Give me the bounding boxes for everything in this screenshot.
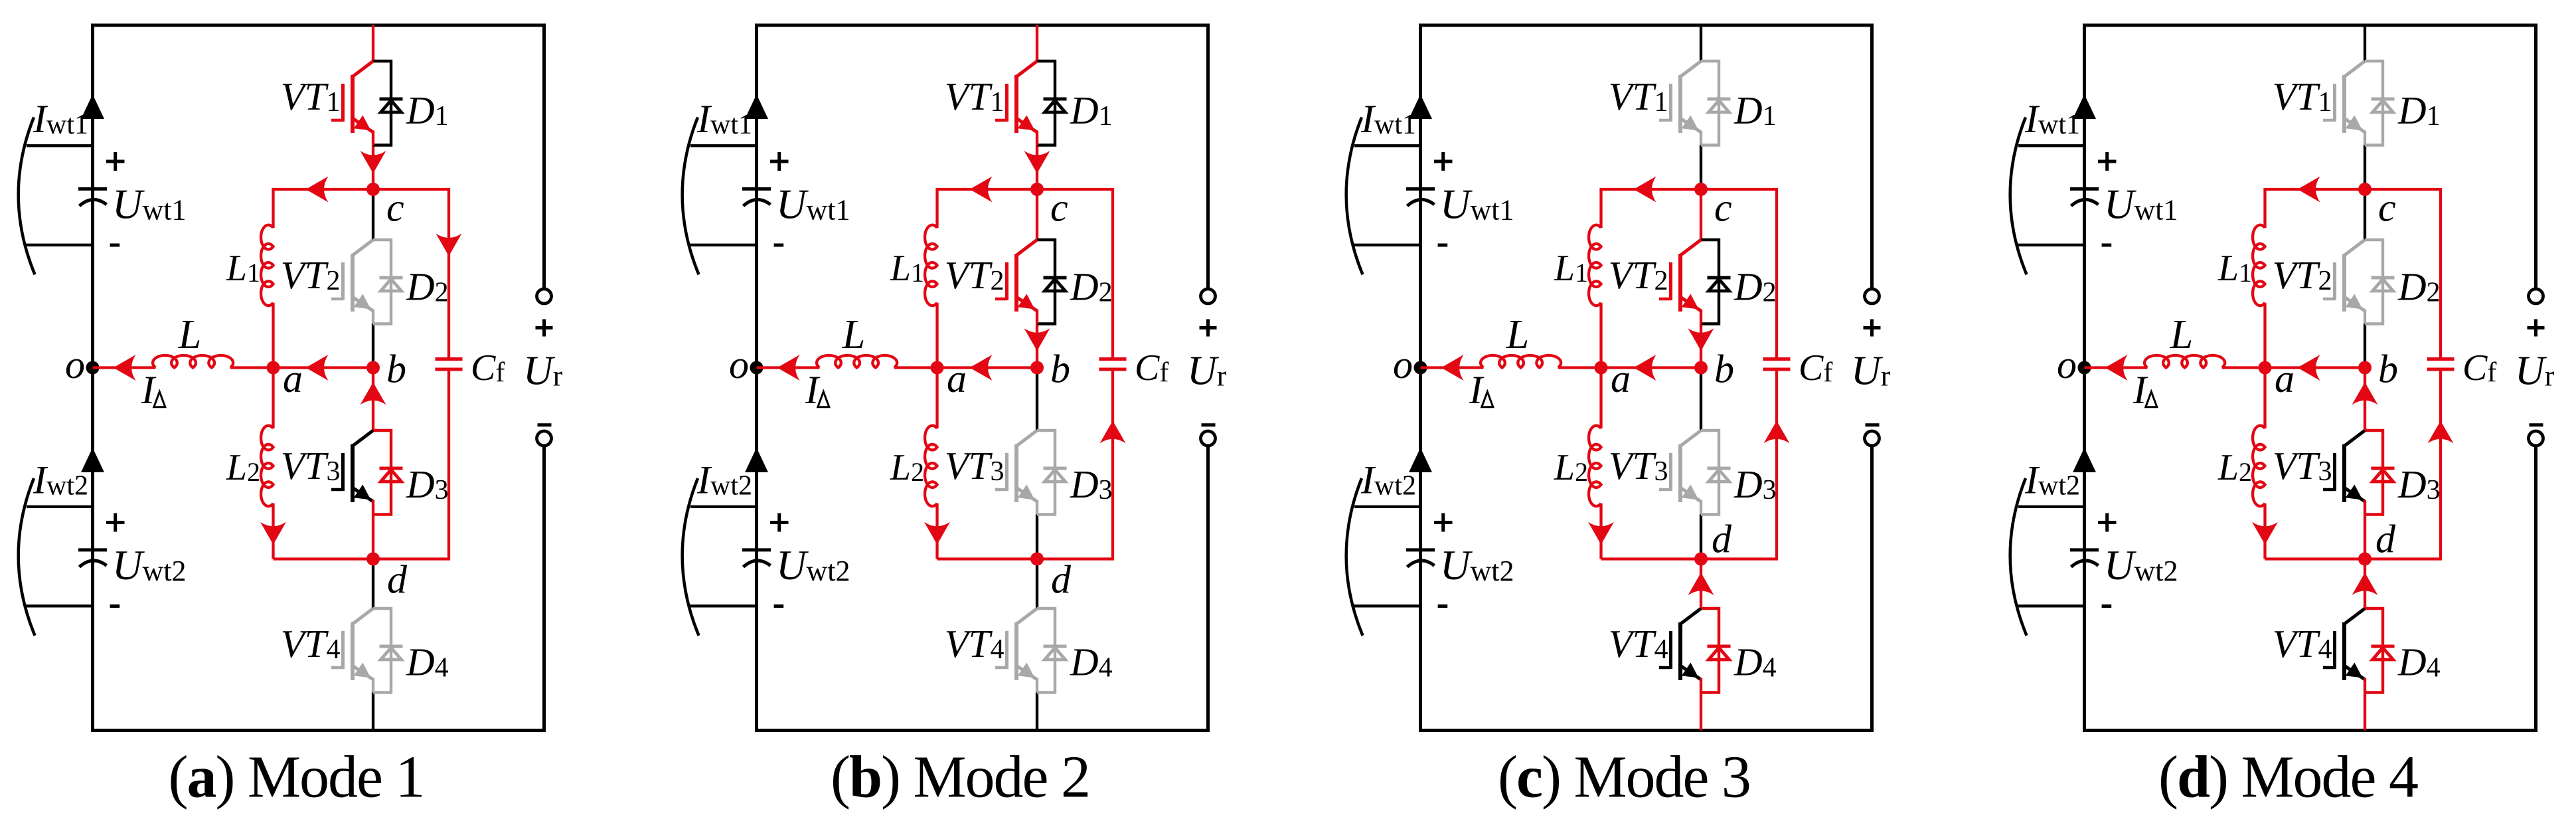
wire: outer loop rails bbox=[757, 25, 1208, 731]
diode D3 bbox=[1037, 430, 1055, 515]
wire: node c to VT2 bbox=[1036, 189, 1038, 240]
wire: Uwt2 top stub bbox=[1354, 505, 1421, 508]
wire: VT2 emitter stub bbox=[372, 310, 374, 324]
wire: Uwt2 bottom stub bbox=[25, 604, 93, 607]
source curve wt2 bbox=[19, 478, 35, 636]
wire: VT3 emitter stub bbox=[1036, 500, 1038, 515]
wire: outer loop rails bbox=[1421, 25, 1872, 731]
wire: Uwt2 bottom stub bbox=[689, 604, 757, 607]
diode D3 bbox=[1701, 430, 1719, 515]
label plus Ur bbox=[2528, 326, 2545, 329]
source curve wt1 bbox=[683, 118, 699, 275]
svg-text:a: a bbox=[1611, 357, 1631, 401]
capacitor Uwt2 bbox=[742, 548, 771, 551]
wire: VT2 emitter to node b bbox=[372, 324, 374, 368]
current arrow b to a bbox=[970, 355, 993, 381]
wire: VT4 emitter to bottom rail bbox=[1700, 693, 1702, 731]
label plus Uwt2 bbox=[1434, 521, 1453, 524]
svg-text:(a) Mode 1: (a) Mode 1 bbox=[169, 745, 424, 810]
wire: VT4 emitter stub bbox=[1700, 678, 1702, 693]
label plus Uwt1 bbox=[1434, 160, 1453, 163]
wire: node d horizontal link bbox=[2265, 371, 2441, 559]
node b bbox=[1694, 361, 1708, 375]
node d bbox=[2358, 553, 2372, 566]
wire: node b to node a bbox=[2265, 366, 2366, 369]
transistor VT1 bbox=[1014, 75, 1018, 133]
wire: node d horizontal link bbox=[274, 371, 449, 559]
svg-text:o: o bbox=[1393, 343, 1413, 387]
diode D4 bbox=[373, 608, 391, 693]
node c bbox=[1030, 183, 1044, 196]
wire: node b to VT3 bbox=[1700, 368, 1702, 431]
wire: node a to L2 bbox=[1599, 368, 1602, 429]
svg-text:c: c bbox=[1050, 186, 1068, 230]
current arrow Iwt2 bbox=[2073, 448, 2096, 472]
wire: node b to VT3 bbox=[1036, 368, 1038, 431]
svg-text:L: L bbox=[178, 312, 201, 357]
wire: L1 to node a bbox=[1599, 303, 1602, 368]
capacitor Uwt1 bbox=[78, 187, 107, 191]
label plus Uwt2 bbox=[106, 521, 125, 524]
svg-text:d: d bbox=[1712, 517, 1732, 561]
terminal + output bbox=[1865, 289, 1880, 304]
diode D3 bbox=[2365, 430, 2383, 515]
terminal + output bbox=[1201, 289, 1216, 304]
label minus Uwt2 bbox=[774, 604, 784, 608]
label minus Uwt1 bbox=[110, 244, 120, 247]
wire: node a to L2 bbox=[2263, 368, 2266, 429]
capacitor Uwt2 bbox=[1406, 548, 1435, 551]
transistor VT3 bbox=[2342, 444, 2346, 502]
wire: L1 to node a bbox=[2263, 303, 2266, 368]
label plus Uwt1 bbox=[2098, 160, 2117, 163]
svg-text:b: b bbox=[1714, 347, 1734, 391]
capacitor Uwt2 bbox=[2070, 548, 2099, 551]
inductor L2 bbox=[2253, 426, 2265, 506]
node d bbox=[1030, 553, 1044, 566]
wire: VT4 emitter stub bbox=[1036, 678, 1038, 693]
capacitor Cf bbox=[1099, 357, 1127, 361]
transistor VT2 bbox=[351, 254, 355, 312]
diode D1 bbox=[2365, 61, 2383, 145]
wire: node c horizontal link bbox=[937, 189, 1113, 357]
node b bbox=[366, 361, 380, 375]
wire: outer loop rails bbox=[93, 25, 544, 731]
wire: VT3 emitter to node d bbox=[1700, 515, 1702, 559]
node c bbox=[366, 183, 380, 196]
wire: top rail to VT1 bbox=[372, 25, 374, 61]
current arrow into node b (down) bbox=[1688, 328, 1714, 351]
inductor L1 bbox=[261, 225, 273, 306]
diode D4 bbox=[2365, 608, 2383, 693]
current arrow on c link bbox=[1634, 177, 1656, 203]
transistor VT3 bbox=[351, 444, 355, 502]
wire: Uwt1 top stub bbox=[690, 144, 757, 147]
terminal - output bbox=[2529, 431, 2543, 446]
wire: Uwt2 top stub bbox=[690, 505, 757, 508]
terminal - output bbox=[1865, 431, 1880, 446]
current arrow Iwt2 bbox=[745, 448, 768, 472]
label plus Uwt1 bbox=[106, 160, 125, 163]
transistor VT4 bbox=[1014, 622, 1018, 680]
label minus Uwt2 bbox=[110, 604, 120, 608]
wire: Uwt1 bottom stub bbox=[25, 244, 93, 246]
terminal + output bbox=[537, 289, 552, 304]
wire: node b to node a bbox=[937, 366, 1038, 369]
diode D1 bbox=[373, 61, 391, 145]
diode D2 bbox=[373, 240, 391, 324]
svg-text:d: d bbox=[2375, 517, 2396, 561]
wire: VT3 emitter to node d bbox=[372, 515, 374, 559]
svg-text:c: c bbox=[2378, 186, 2396, 230]
current arrow Iwt1 bbox=[2073, 94, 2096, 119]
inductor L2 bbox=[1589, 426, 1601, 506]
transistor VT2 bbox=[1014, 254, 1018, 312]
wire: node d horizontal link bbox=[937, 371, 1113, 559]
label minus Ur bbox=[1202, 423, 1216, 426]
wire: node c horizontal link bbox=[2265, 189, 2441, 357]
wire: node d horizontal link bbox=[1601, 371, 1777, 559]
wire: VT1 emitter stub bbox=[372, 131, 374, 145]
current arrow on c link bbox=[2298, 177, 2320, 203]
current arrow Cf branch (up) bbox=[2428, 420, 2454, 443]
diode D4 bbox=[1037, 608, 1055, 693]
node o bbox=[86, 361, 100, 375]
wire: Uwt1 top stub bbox=[27, 144, 93, 147]
node b bbox=[1030, 361, 1044, 375]
current arrow Iwt2 bbox=[81, 448, 104, 472]
transistor VT3 bbox=[1014, 444, 1018, 502]
inductor L1 bbox=[1589, 225, 1601, 306]
transistor VT1 bbox=[1678, 75, 1682, 133]
label plus Ur bbox=[1200, 326, 1217, 329]
wire: VT2 emitter to node b bbox=[1036, 324, 1038, 368]
svg-text:(c) Mode 3: (c) Mode 3 bbox=[1498, 745, 1750, 810]
current arrow into node o bbox=[2105, 355, 2128, 381]
wire: node b to node a bbox=[274, 366, 374, 369]
label minus Uwt2 bbox=[1438, 604, 1448, 608]
terminal + output bbox=[2529, 289, 2543, 304]
svg-text:b: b bbox=[2378, 347, 2398, 391]
current arrow b to a bbox=[2298, 355, 2320, 381]
label minus Uwt2 bbox=[2102, 604, 2112, 608]
transistor VT4 bbox=[2342, 622, 2346, 680]
transistor VT2 bbox=[1678, 254, 1682, 312]
capacitor Uwt1 bbox=[1406, 187, 1435, 191]
terminal - output bbox=[537, 431, 552, 446]
svg-text:c: c bbox=[386, 186, 404, 230]
wire: node c horizontal link bbox=[1601, 189, 1777, 357]
current arrow into node d (up) bbox=[2352, 573, 2378, 595]
wire: node o to coil L bbox=[93, 366, 156, 369]
current arrow on c link bbox=[970, 177, 993, 203]
wire: VT3 emitter to node d bbox=[2364, 515, 2366, 559]
node o bbox=[2078, 361, 2091, 375]
current arrow into node o bbox=[114, 355, 136, 381]
wire: L2 to node d line bbox=[935, 503, 938, 559]
current arrow Cf branch (down) bbox=[436, 234, 462, 256]
transistor VT1 bbox=[2342, 75, 2346, 133]
wire: VT4 emitter to bottom rail bbox=[2364, 693, 2366, 731]
source curve wt2 bbox=[2010, 478, 2027, 636]
wire: VT2 emitter stub bbox=[2364, 310, 2366, 324]
wire: node b to VT3 bbox=[372, 368, 374, 431]
transistor VT4 bbox=[1678, 622, 1682, 680]
inductor L1 bbox=[2253, 225, 2265, 306]
svg-text:c: c bbox=[1714, 186, 1732, 230]
wire: L2 to node d line bbox=[2263, 503, 2266, 559]
current arrow L2 down bbox=[2252, 522, 2278, 545]
wire: top rail to VT1 bbox=[1036, 25, 1038, 61]
wire: node a to L2 bbox=[935, 368, 938, 429]
wire: top rail to VT1 bbox=[1700, 25, 1702, 61]
wire: Uwt2 bottom stub bbox=[1353, 604, 1421, 607]
current arrow into node c bbox=[361, 151, 386, 173]
wire: coil L to node a bbox=[2222, 366, 2265, 369]
diode D2 bbox=[1701, 240, 1719, 324]
svg-text:b: b bbox=[386, 347, 406, 391]
label minus Uwt1 bbox=[774, 244, 784, 247]
node a bbox=[267, 361, 280, 375]
wire: node b to node a bbox=[1601, 366, 1702, 369]
label plus Uwt2 bbox=[770, 521, 789, 524]
svg-text:o: o bbox=[2057, 343, 2077, 387]
wire: VT1 emitter stub bbox=[2364, 131, 2366, 145]
current arrow Iwt1 bbox=[81, 94, 104, 119]
inductor L2 bbox=[261, 426, 273, 506]
svg-text:(b) Mode 2: (b) Mode 2 bbox=[831, 745, 1089, 810]
capacitor Cf bbox=[1763, 357, 1791, 361]
wire: node c horizontal link bbox=[274, 189, 449, 357]
current arrow into node o bbox=[777, 355, 800, 381]
wire: VT1 emitter to node c bbox=[1700, 145, 1702, 190]
node a bbox=[931, 361, 944, 375]
node d bbox=[366, 553, 380, 566]
wire: L2 to node d line bbox=[1599, 503, 1602, 559]
current arrow L2 down bbox=[260, 522, 286, 545]
wire: node d to VT4 bbox=[1036, 559, 1038, 609]
wire: Uwt1 top stub bbox=[1354, 144, 1421, 147]
wire: VT4 emitter stub bbox=[372, 678, 374, 693]
wire: node d to VT4 bbox=[372, 559, 374, 609]
current arrow into node b (down) bbox=[1024, 328, 1050, 351]
capacitor Uwt2 bbox=[78, 548, 107, 551]
source curve wt2 bbox=[1346, 478, 1363, 636]
inductor L2 bbox=[925, 426, 937, 506]
wire: node b to VT3 bbox=[2364, 368, 2366, 431]
wire: node c to VT2 bbox=[372, 189, 374, 240]
wire: Uwt1 top stub bbox=[2018, 144, 2085, 147]
current arrow into node b (up) bbox=[2352, 382, 2378, 405]
current arrow b to a bbox=[306, 355, 329, 381]
wire: VT2 emitter to node b bbox=[1700, 324, 1702, 368]
capacitor Uwt1 bbox=[742, 187, 771, 191]
svg-text:a: a bbox=[2275, 357, 2294, 401]
wire: VT2 emitter stub bbox=[1700, 310, 1702, 324]
current arrow into node o bbox=[1441, 355, 1464, 381]
current arrow Iwt1 bbox=[1409, 94, 1432, 119]
source curve wt1 bbox=[19, 118, 35, 275]
current arrow Cf branch (up) bbox=[1100, 420, 1126, 443]
current arrow into node d (up) bbox=[1688, 573, 1714, 595]
wire: L1 to node a bbox=[272, 303, 274, 368]
svg-text:a: a bbox=[947, 357, 967, 401]
wire: node o to coil L bbox=[1421, 366, 1484, 369]
wire: outer loop rails bbox=[2085, 25, 2536, 731]
svg-text:d: d bbox=[1051, 558, 1072, 602]
current arrow Cf branch (up) bbox=[1764, 420, 1790, 443]
transistor VT1 bbox=[351, 75, 355, 133]
wire: Uwt2 top stub bbox=[2018, 505, 2085, 508]
node c bbox=[2358, 183, 2372, 196]
terminal - output bbox=[1201, 431, 1216, 446]
capacitor Cf bbox=[436, 357, 463, 361]
wire: Uwt2 top stub bbox=[27, 505, 93, 508]
wire: Uwt2 bottom stub bbox=[2017, 604, 2085, 607]
label minus Ur bbox=[2530, 423, 2543, 426]
wire: VT4 emitter stub bbox=[2364, 678, 2366, 693]
label plus Uwt2 bbox=[2098, 521, 2117, 524]
inductor L bbox=[1481, 355, 1561, 368]
svg-text:o: o bbox=[65, 343, 85, 387]
diode D2 bbox=[2365, 240, 2383, 324]
wire: VT1 emitter stub bbox=[1036, 131, 1038, 145]
svg-text:L: L bbox=[2170, 312, 2193, 357]
inductor L bbox=[2144, 355, 2225, 368]
label plus Ur bbox=[1864, 326, 1881, 329]
wire: VT4 emitter to bottom rail bbox=[372, 693, 374, 731]
node a bbox=[1595, 361, 1608, 375]
capacitor Cf bbox=[2427, 357, 2455, 361]
label minus Ur bbox=[1866, 423, 1880, 426]
wire: VT1 emitter to node c bbox=[2364, 145, 2366, 190]
transistor VT2 bbox=[2342, 254, 2346, 312]
node d bbox=[1694, 553, 1708, 566]
label minus Uwt1 bbox=[2102, 244, 2112, 247]
current arrow into node c bbox=[1024, 151, 1050, 173]
current arrow Iwt1 bbox=[745, 94, 768, 119]
svg-text:L: L bbox=[842, 312, 865, 357]
svg-text:b: b bbox=[1050, 347, 1070, 391]
wire: Uwt1 bottom stub bbox=[689, 244, 757, 246]
wire: node c to VT2 bbox=[1700, 189, 1702, 240]
node a bbox=[2259, 361, 2272, 375]
node o bbox=[1414, 361, 1427, 375]
current arrow b to a bbox=[1634, 355, 1656, 381]
label minus Ur bbox=[538, 423, 552, 426]
svg-text:o: o bbox=[729, 343, 749, 387]
source curve wt1 bbox=[2010, 118, 2027, 275]
wire: node d to VT4 bbox=[1700, 559, 1702, 609]
wire: top rail to VT1 bbox=[2364, 25, 2366, 61]
svg-text:a: a bbox=[283, 357, 303, 401]
current arrow on c link bbox=[306, 177, 329, 203]
source curve wt2 bbox=[683, 478, 699, 636]
wire: VT4 emitter to bottom rail bbox=[1036, 693, 1038, 731]
wire: node a to L2 bbox=[272, 368, 274, 429]
current arrow L2 down bbox=[1588, 522, 1614, 545]
diode D2 bbox=[1037, 240, 1055, 324]
wire: Uwt1 bottom stub bbox=[2017, 244, 2085, 246]
wire: L2 to node d line bbox=[272, 503, 274, 559]
svg-text:(d) Mode 4: (d) Mode 4 bbox=[2158, 745, 2418, 810]
wire: VT3 emitter stub bbox=[372, 500, 374, 515]
label minus Uwt1 bbox=[1438, 244, 1448, 247]
diode D1 bbox=[1037, 61, 1055, 145]
wire: VT1 emitter to node c bbox=[1036, 145, 1038, 190]
node o bbox=[750, 361, 764, 375]
current arrow Iwt2 bbox=[1409, 448, 1432, 472]
label plus Ur bbox=[536, 326, 553, 329]
node c bbox=[1694, 183, 1708, 196]
wire: VT2 emitter to node b bbox=[2364, 324, 2366, 368]
svg-text:d: d bbox=[387, 558, 408, 602]
capacitor Uwt1 bbox=[2070, 187, 2099, 191]
svg-text:L: L bbox=[1506, 312, 1529, 357]
diode D3 bbox=[373, 430, 391, 515]
wire: L1 to node a bbox=[935, 303, 938, 368]
inductor L bbox=[153, 355, 233, 368]
wire: VT3 emitter to node d bbox=[1036, 515, 1038, 559]
wire: VT2 emitter stub bbox=[1036, 310, 1038, 324]
wire: node o to coil L bbox=[2085, 366, 2148, 369]
wire: VT1 emitter to node c bbox=[372, 145, 374, 190]
wire: node d to VT4 bbox=[2364, 559, 2366, 609]
wire: node o to coil L bbox=[757, 366, 820, 369]
diode D4 bbox=[1701, 608, 1719, 693]
inductor L1 bbox=[925, 225, 937, 306]
wire: VT3 emitter stub bbox=[1700, 500, 1702, 515]
wire: coil L to node a bbox=[894, 366, 937, 369]
wire: coil L to node a bbox=[230, 366, 274, 369]
wire: coil L to node a bbox=[1558, 366, 1601, 369]
source curve wt1 bbox=[1346, 118, 1363, 275]
transistor VT4 bbox=[351, 622, 355, 680]
node b bbox=[2358, 361, 2372, 375]
wire: Uwt1 bottom stub bbox=[1353, 244, 1421, 246]
wire: VT3 emitter stub bbox=[2364, 500, 2366, 515]
wire: node c to VT2 bbox=[2364, 189, 2366, 240]
transistor VT3 bbox=[1678, 444, 1682, 502]
current arrow into node b (up) bbox=[361, 382, 386, 405]
inductor L bbox=[817, 355, 897, 368]
current arrow L2 down bbox=[924, 522, 950, 545]
wire: VT1 emitter stub bbox=[1700, 131, 1702, 145]
label plus Uwt1 bbox=[770, 160, 789, 163]
diode D1 bbox=[1701, 61, 1719, 145]
